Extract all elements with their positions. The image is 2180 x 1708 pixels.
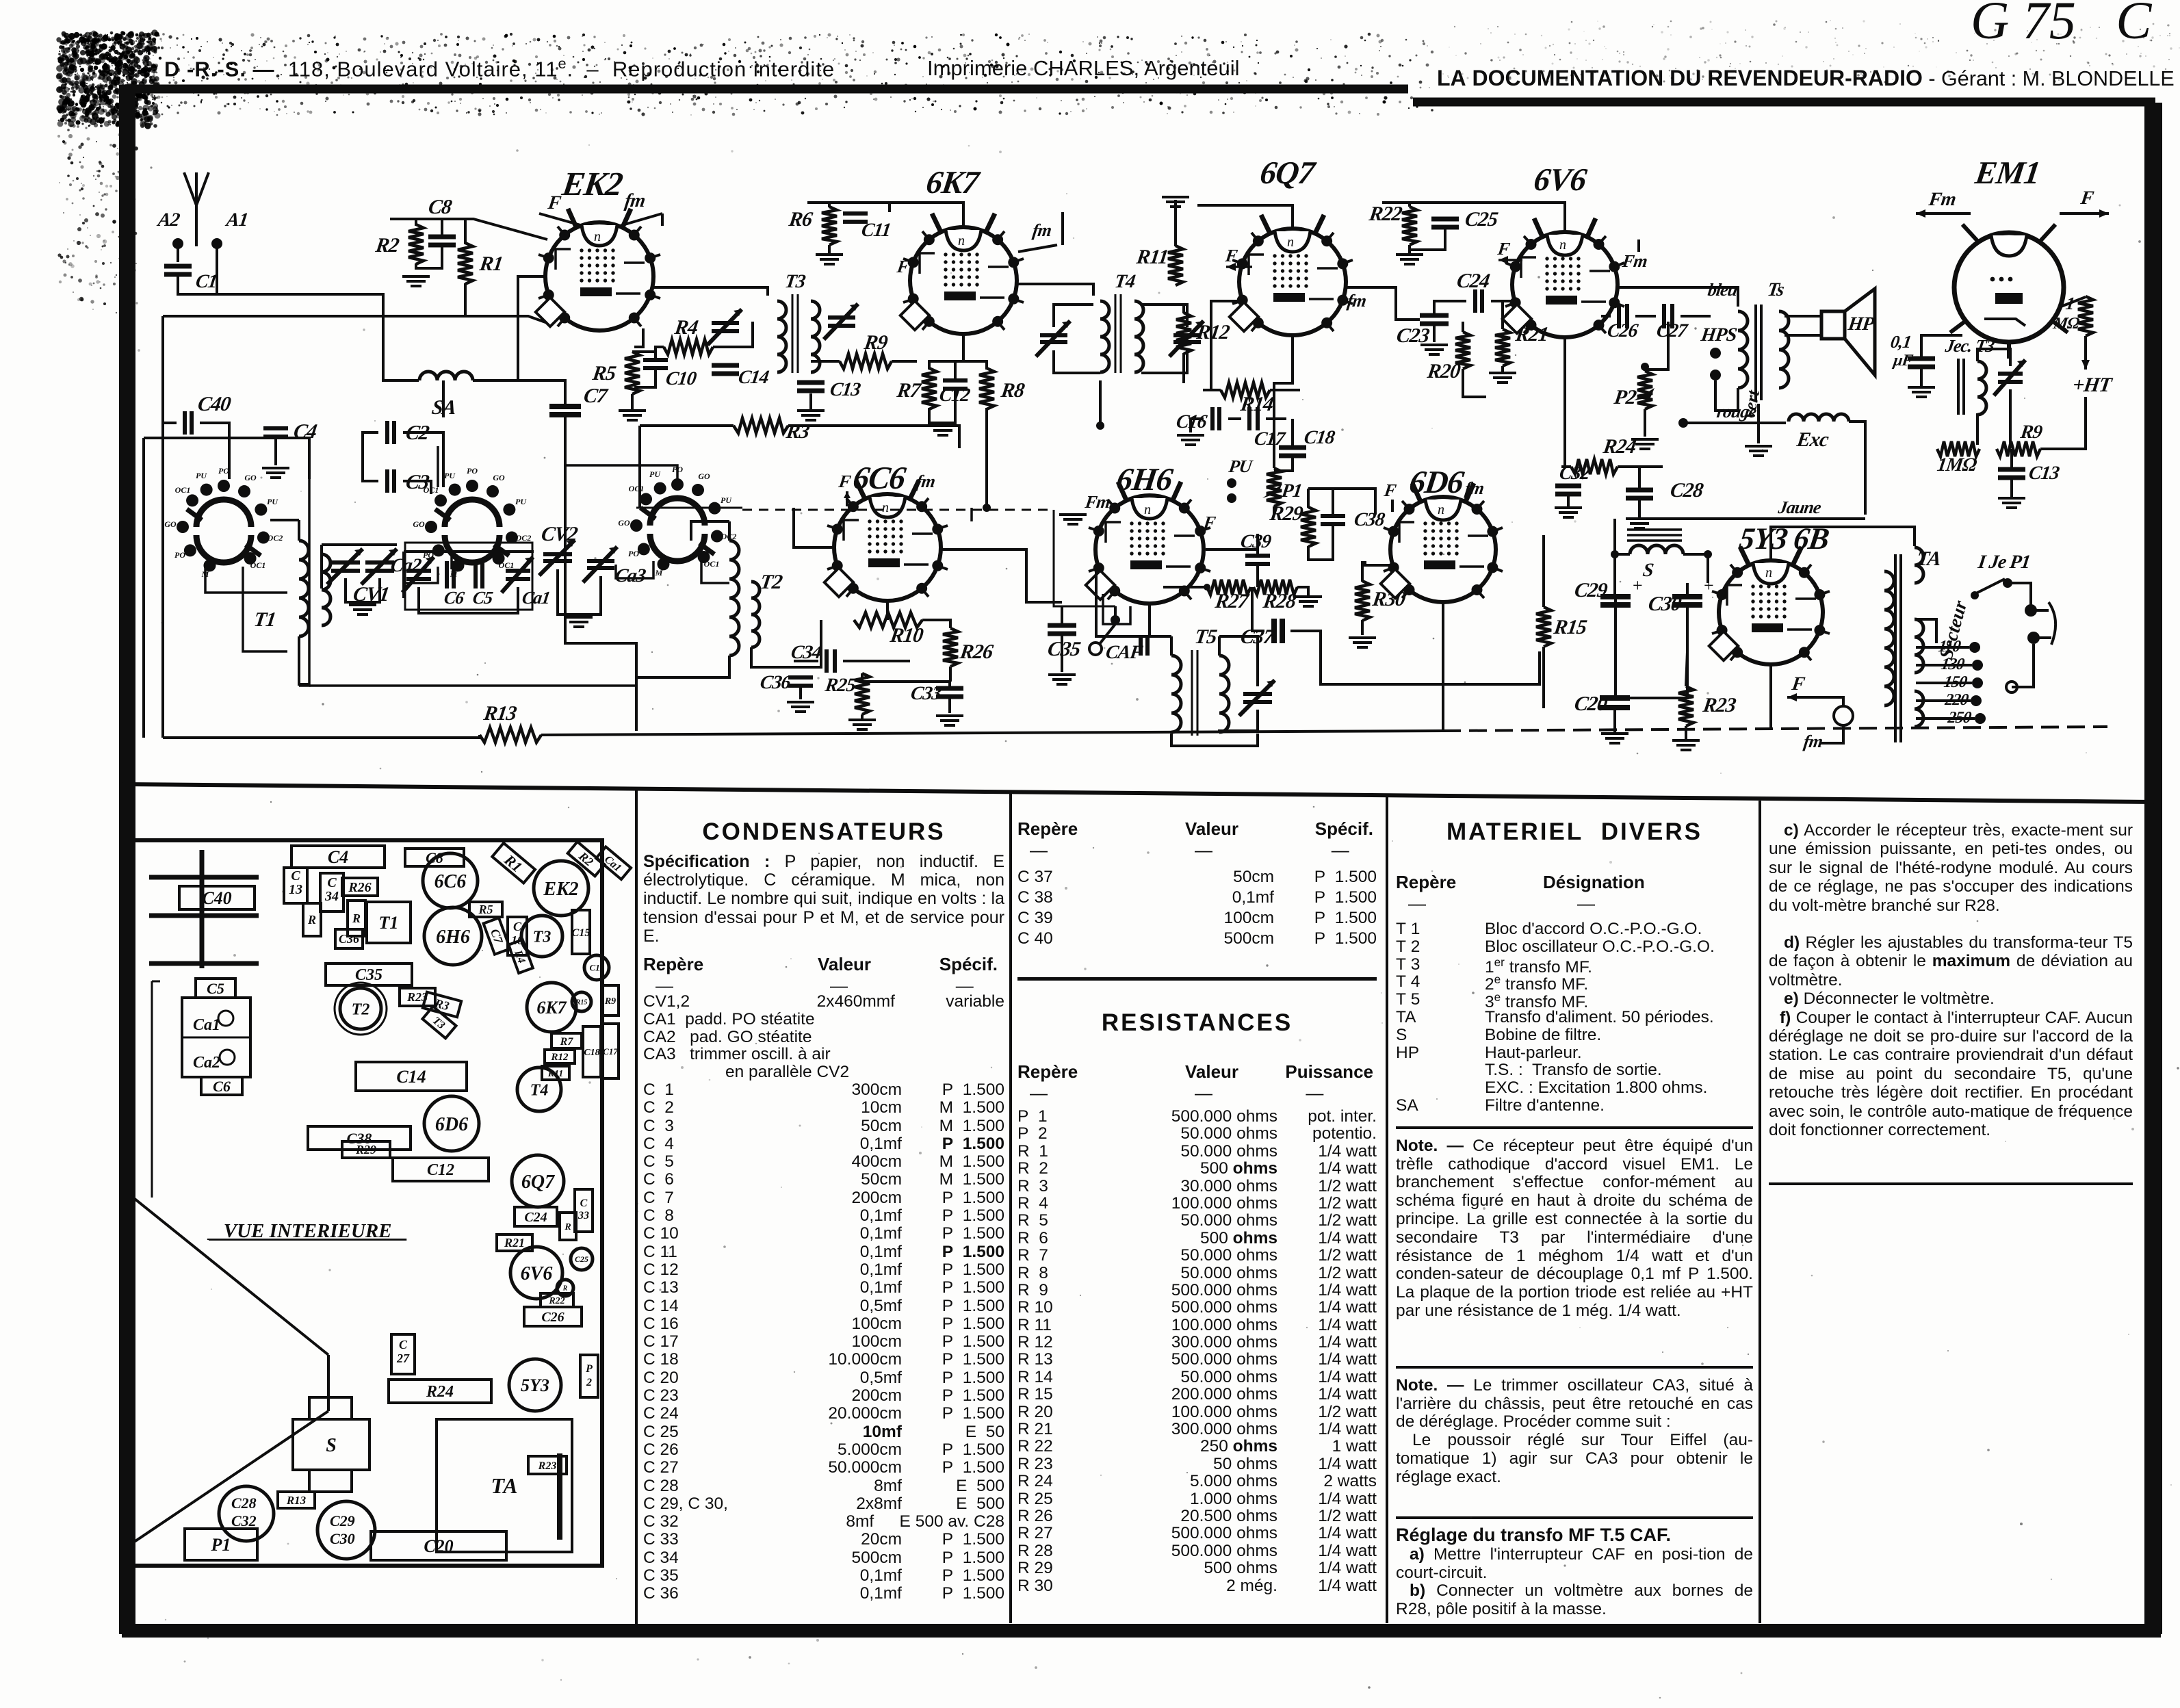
svg-text:GO: GO bbox=[413, 519, 425, 529]
svg-text:R12: R12 bbox=[1195, 320, 1232, 344]
vue: C20 box bbox=[371, 1531, 506, 1560]
resistor R24 bbox=[1571, 459, 1618, 474]
svg-text:C8: C8 bbox=[427, 195, 454, 218]
svg-text:+HT: +HT bbox=[2071, 373, 2114, 396]
wire 6K7 plate to T4 bbox=[1017, 284, 1093, 296]
vue: R2 box bbox=[568, 842, 605, 876]
resistor R25 bbox=[855, 673, 870, 714]
ground under R21 bbox=[1489, 373, 1516, 383]
vue: R-c24 box bbox=[560, 1213, 576, 1240]
vue: R4 box bbox=[508, 940, 533, 973]
wire R3 right bbox=[788, 426, 959, 448]
wire T5 bottom loop bbox=[1171, 734, 1258, 746]
svg-text:R: R bbox=[564, 1222, 571, 1232]
tube 6D6 bbox=[1390, 497, 1496, 602]
wire T4 bottom to AVC bbox=[1099, 380, 1102, 426]
right instructions column bbox=[1769, 821, 2133, 1185]
wire C18 bbox=[1291, 419, 1294, 446]
svg-text:C5: C5 bbox=[471, 588, 494, 608]
capacitor C29 bbox=[1600, 597, 1631, 605]
resistor 1MOhm h bbox=[1937, 441, 1980, 456]
wire grid bus bbox=[163, 316, 547, 323]
svg-text:T1: T1 bbox=[379, 913, 399, 933]
vue: 6H6 circle bbox=[424, 907, 482, 965]
capacitor C13 bbox=[797, 383, 825, 391]
wire T2 top bbox=[728, 521, 731, 541]
wire mid bus bbox=[636, 507, 742, 509]
node A2 bbox=[172, 238, 183, 249]
wire P1 bottom bbox=[1273, 506, 1275, 515]
vue: TA box bbox=[437, 1419, 572, 1552]
trimmer cap T5 right bbox=[1239, 680, 1275, 716]
wire P2 top bbox=[1644, 370, 1646, 371]
wire R3 drop bbox=[638, 426, 641, 508]
capacitor C38 bbox=[1321, 516, 1345, 524]
capacitor C40 bbox=[185, 411, 192, 435]
trimmer C5 bbox=[476, 561, 482, 588]
vue: R3 box bbox=[423, 992, 461, 1018]
wire C1 bottom bbox=[178, 276, 217, 294]
capacitor C31 bbox=[1141, 635, 1147, 656]
svg-text:OC1: OC1 bbox=[704, 559, 720, 569]
wire T2 to R10 bbox=[751, 620, 821, 667]
page frame: bottom border bbox=[122, 1624, 2161, 1638]
wire C16/C17 bbox=[1191, 419, 1204, 432]
svg-text:C27: C27 bbox=[396, 1338, 410, 1365]
ground under C28 bbox=[1626, 519, 1653, 528]
tube 6H6 bbox=[1095, 495, 1204, 604]
svg-text:S: S bbox=[1642, 560, 1655, 581]
wire 6C6 cathode bbox=[886, 601, 889, 620]
svg-text:T1: T1 bbox=[252, 608, 277, 631]
resistor 1 MOhm (EM1) bbox=[2078, 296, 2093, 336]
wire R14 bus bbox=[1203, 389, 1221, 391]
wire JecT3 top bbox=[1977, 349, 2010, 366]
svg-text:R13: R13 bbox=[482, 701, 519, 725]
wire 6Q7 bottom to P1 bbox=[1274, 335, 1293, 468]
wire C7 down bbox=[564, 417, 567, 619]
svg-text:R6: R6 bbox=[787, 207, 815, 231]
vue: C-17 tall box bbox=[602, 1024, 619, 1078]
capacitor C27 bbox=[1664, 304, 1672, 328]
wire A2-C1 bbox=[177, 248, 179, 262]
vue: 5Y3 circle bbox=[509, 1359, 561, 1411]
transformer T5 core bbox=[1192, 650, 1197, 736]
capacitor C10 bbox=[643, 360, 668, 368]
vue: C36 box bbox=[335, 929, 363, 948]
ground right of R28 bbox=[1295, 597, 1322, 606]
ground under R5 bbox=[619, 411, 646, 420]
coil Exc bbox=[1789, 414, 1849, 422]
ground CV2 bbox=[565, 617, 593, 627]
svg-text:C35: C35 bbox=[355, 966, 382, 984]
vue: R-small box bbox=[348, 901, 365, 936]
svg-text:PU: PU bbox=[267, 497, 278, 506]
resistor R22 bbox=[1402, 207, 1417, 245]
capacitor C18 bbox=[1279, 448, 1306, 456]
svg-text:EK2: EK2 bbox=[543, 879, 578, 900]
svg-text:R1: R1 bbox=[501, 851, 526, 875]
trimmer Ca3 bbox=[583, 547, 617, 582]
wire 6Q7 plate bbox=[1346, 287, 1396, 316]
wire TS bottom left bbox=[1715, 380, 1738, 411]
capacitor C33 bbox=[936, 688, 963, 697]
svg-text:6V6: 6V6 bbox=[521, 1263, 553, 1284]
svg-text:Fm: Fm bbox=[1620, 251, 1648, 271]
wire R9 right bbox=[2040, 397, 2086, 449]
svg-text:Ts: Ts bbox=[1766, 279, 1786, 300]
potentiometer P2 bbox=[1637, 371, 1652, 409]
svg-text:TA: TA bbox=[491, 1473, 517, 1498]
svg-text:A2: A2 bbox=[155, 209, 181, 231]
resistor R3 bbox=[734, 418, 788, 433]
resistor R13 bbox=[480, 727, 541, 742]
ground under C20 bbox=[1601, 734, 1628, 743]
handwritten reference G75 C top right bbox=[1971, 0, 2151, 51]
wire C33 bbox=[948, 682, 951, 687]
ground under C13 (EM1) bbox=[1998, 498, 2025, 508]
wire SA down to S2 bbox=[442, 380, 445, 417]
wire 6V6 top-right screen bbox=[1563, 203, 1566, 231]
vue: R12 box bbox=[545, 1050, 575, 1063]
vue: C10 box bbox=[508, 917, 527, 955]
wire R5 bottom bbox=[631, 394, 634, 409]
wire R7/C12 bottom bbox=[929, 390, 955, 423]
capacitor C13 (EM1) bbox=[1998, 469, 2025, 478]
svg-text:C13: C13 bbox=[289, 868, 302, 897]
wire 6Q7 left grid loop bbox=[1203, 305, 1211, 390]
wire 6Q7 grid bbox=[1211, 301, 1239, 305]
wire R2 top bbox=[415, 219, 417, 226]
wire 6H6 to C39 bbox=[1206, 534, 1258, 549]
vue: R7 box bbox=[552, 1033, 582, 1048]
wire 6C6 plate right bbox=[941, 549, 1062, 602]
svg-text:6Q7: 6Q7 bbox=[521, 1172, 555, 1193]
vue interieure outer box bbox=[130, 840, 602, 1566]
svg-text:PU: PU bbox=[196, 471, 207, 480]
transformer T4 core bbox=[1115, 294, 1121, 373]
wire T5 left bbox=[1170, 636, 1173, 656]
trimmer cap T3 right bbox=[824, 304, 858, 339]
resistor R20 bbox=[1455, 332, 1470, 369]
wire C23/C24 bbox=[1396, 316, 1420, 320]
svg-text:M: M bbox=[655, 568, 663, 578]
svg-text:T4: T4 bbox=[1113, 271, 1137, 292]
svg-text:R10: R10 bbox=[888, 623, 925, 647]
vue: C33 box bbox=[575, 1189, 593, 1232]
wire R24 bus bbox=[1561, 465, 1571, 468]
vue: R1 box bbox=[492, 843, 535, 883]
materiel divers column bbox=[1396, 818, 1753, 1619]
wire R4 left bbox=[656, 347, 664, 352]
speaker HP bbox=[1821, 311, 1845, 339]
vue: Ca1/Ca2 box bbox=[182, 998, 250, 1077]
svg-text:C28: C28 bbox=[1669, 478, 1705, 502]
wire 6K7 top node bbox=[807, 203, 963, 227]
wire bottom link T1-T2 bbox=[309, 684, 636, 687]
svg-text:6K7: 6K7 bbox=[924, 165, 983, 200]
svg-text:1MΩ: 1MΩ bbox=[1936, 454, 1978, 476]
vue: C7 box bbox=[484, 918, 510, 954]
vue: C28/C32 circle bbox=[219, 1486, 274, 1541]
svg-text:C6: C6 bbox=[443, 588, 466, 608]
wire SA to C7 bbox=[473, 380, 565, 404]
svg-text:GO: GO bbox=[618, 518, 630, 528]
wire socket3 top to EK2 bbox=[565, 465, 677, 486]
svg-text:P1: P1 bbox=[211, 1535, 231, 1555]
wire T1 top bbox=[298, 520, 300, 541]
svg-text:R: R bbox=[562, 1285, 568, 1293]
wire C39 bbox=[1256, 534, 1259, 554]
resistor R7 bbox=[922, 368, 937, 409]
svg-text:Ca1: Ca1 bbox=[602, 853, 623, 874]
svg-text:R24: R24 bbox=[1601, 435, 1638, 458]
capacitor C16 bbox=[1212, 407, 1219, 430]
wire R29/C38 top bbox=[1307, 489, 1310, 508]
wire T2 bottom bbox=[636, 656, 729, 731]
svg-text:R4: R4 bbox=[673, 315, 700, 339]
capacitor C11 bbox=[843, 213, 868, 222]
plug secteur bbox=[2025, 604, 2037, 617]
switch CAF bbox=[1089, 643, 1102, 655]
tube 6C6 bbox=[834, 494, 941, 601]
vue: C38 box bbox=[308, 1126, 411, 1150]
svg-text:C36: C36 bbox=[339, 932, 359, 946]
svg-text:T2: T2 bbox=[352, 1000, 370, 1018]
svg-text:C37: C37 bbox=[1239, 625, 1277, 648]
wire 6D6 plate down bbox=[1442, 602, 1444, 729]
svg-text:rouge: rouge bbox=[1715, 402, 1759, 422]
svg-text:PU: PU bbox=[1227, 456, 1254, 476]
vue: 6C6 circle bbox=[423, 853, 478, 908]
wire rouge line bbox=[1683, 422, 1786, 424]
svg-text:Fm: Fm bbox=[1927, 189, 1957, 210]
svg-text:C32: C32 bbox=[1558, 463, 1592, 484]
transformer TA sec top bbox=[1915, 547, 1923, 583]
ground under C32 bbox=[1555, 508, 1582, 517]
capacitor 0,1uF (EM1) bbox=[1908, 359, 1935, 367]
vue: C13 box bbox=[284, 868, 307, 903]
svg-text:R15: R15 bbox=[1552, 615, 1589, 638]
svg-text:OC1: OC1 bbox=[499, 560, 515, 570]
tube 6K7 bbox=[910, 227, 1017, 334]
svg-text:PO: PO bbox=[174, 550, 185, 560]
vue: R13 box bbox=[278, 1492, 315, 1508]
wire F lamp bbox=[1787, 696, 1820, 699]
svg-text:PU: PU bbox=[444, 471, 456, 480]
svg-text:C23: C23 bbox=[1395, 324, 1431, 347]
vue: C25 circle bbox=[571, 1248, 593, 1270]
wire C23 ground bbox=[1433, 326, 1436, 342]
wire C36-R25 bbox=[799, 686, 802, 699]
node A1 bbox=[211, 238, 222, 249]
svg-text:T2: T2 bbox=[759, 570, 784, 593]
wire trimmer bus top bbox=[404, 550, 534, 553]
svg-text:R9: R9 bbox=[2019, 422, 2044, 443]
svg-text:Ca3: Ca3 bbox=[614, 565, 647, 586]
svg-text:fm: fm bbox=[1802, 732, 1824, 751]
ground under R6 bbox=[816, 255, 843, 264]
wire C37 bbox=[1252, 587, 1264, 631]
vue: 6V6 circle bbox=[510, 1247, 562, 1299]
transformer T3 bbox=[777, 301, 786, 372]
svg-text:PO: PO bbox=[628, 549, 639, 558]
wire C40 frame bbox=[163, 422, 177, 424]
svg-text:C28: C28 bbox=[231, 1494, 257, 1512]
wire R4 right bbox=[713, 322, 753, 347]
svg-text:R22: R22 bbox=[548, 1296, 565, 1306]
svg-text:R2: R2 bbox=[374, 233, 401, 257]
vue: speaker wedge bbox=[131, 1196, 328, 1544]
frame around S1 bbox=[144, 438, 309, 479]
trimmer cap T4 left bbox=[1036, 321, 1070, 357]
wire R20/R21 top bbox=[1462, 322, 1464, 332]
resistor R4 bbox=[664, 339, 713, 354]
wire left vertical bbox=[161, 316, 164, 738]
resistor R9 (EM1) bbox=[1997, 441, 2040, 456]
svg-text:R15: R15 bbox=[575, 999, 588, 1007]
svg-text:n: n bbox=[1144, 502, 1151, 517]
wire A1 down-right bbox=[217, 248, 419, 380]
svg-text:6V6: 6V6 bbox=[1531, 162, 1589, 198]
svg-text:0,1: 0,1 bbox=[1889, 332, 1912, 352]
svg-text:OC1: OC1 bbox=[250, 560, 266, 570]
svg-text:C14: C14 bbox=[737, 367, 770, 388]
wire EK2 plate to T3 bbox=[653, 287, 768, 296]
resistor R9 bbox=[840, 354, 892, 369]
vue: C24 box bbox=[515, 1207, 557, 1226]
svg-text:CV2: CV2 bbox=[540, 522, 580, 545]
wire C8 leads bbox=[441, 219, 443, 235]
svg-text:C36: C36 bbox=[759, 672, 793, 693]
socket S1 (bloc accord) bbox=[196, 500, 251, 527]
svg-text:6K7: 6K7 bbox=[536, 998, 567, 1018]
wire bottom bus right bbox=[541, 731, 1443, 735]
wire JecT3 bottom bbox=[1976, 413, 1979, 445]
vue: EK2 circle bbox=[534, 861, 588, 916]
transformer T2 bbox=[729, 541, 739, 656]
wire 6C6 screen right bbox=[970, 508, 973, 521]
svg-text:F: F bbox=[1382, 480, 1397, 500]
wire R15 bbox=[1542, 535, 1545, 607]
wire R5/C10 node bbox=[632, 352, 656, 359]
svg-text:MΩ: MΩ bbox=[2051, 315, 2081, 333]
svg-text:P2: P2 bbox=[1612, 385, 1638, 409]
capacitor C17 bbox=[1249, 407, 1258, 430]
svg-text:Exc: Exc bbox=[1795, 428, 1830, 451]
wire C35 bbox=[1061, 606, 1063, 624]
ground under 0,1uF bbox=[1908, 387, 1935, 397]
svg-text:EK2: EK2 bbox=[559, 165, 625, 203]
vue: C8 box bbox=[405, 849, 464, 866]
svg-text:OC2: OC2 bbox=[516, 533, 532, 543]
ground under R2 bbox=[402, 276, 430, 286]
divider line between schematic and tables bbox=[122, 784, 2154, 802]
wire R26 bottom bbox=[949, 667, 952, 682]
svg-text:6C6: 6C6 bbox=[851, 461, 908, 496]
resistor R1 bbox=[458, 243, 473, 284]
transformer T1 bbox=[299, 541, 309, 636]
svg-text:5Y3: 5Y3 bbox=[521, 1375, 549, 1395]
header title right bbox=[1437, 66, 2175, 91]
svg-text:R22: R22 bbox=[1367, 202, 1404, 225]
resistor R5 bbox=[625, 352, 640, 394]
resistor R10 bbox=[854, 612, 922, 627]
capacitor C24 bbox=[1475, 289, 1482, 313]
vue: T1 box bbox=[367, 902, 411, 943]
wire R1 leads bbox=[464, 219, 467, 244]
capacitor C37 bbox=[1274, 619, 1282, 643]
header imprint left bbox=[164, 55, 835, 81]
vue: Ca box bbox=[596, 846, 631, 879]
tube EK2 bbox=[545, 222, 653, 331]
wire grid 6C6 bbox=[794, 508, 834, 547]
vue: T4 circle bbox=[517, 1067, 561, 1111]
svg-text:I Je P1: I Je P1 bbox=[1976, 552, 2032, 573]
svg-text:fm: fm bbox=[1346, 291, 1368, 311]
wire R8 bottom to AVC bbox=[985, 438, 988, 508]
trimmer Ca2 bbox=[402, 557, 434, 593]
wire R7/C12/R8 top bbox=[929, 361, 987, 370]
resistor R27 bbox=[1207, 580, 1251, 595]
capacitor C36 bbox=[788, 677, 813, 686]
svg-text:C18: C18 bbox=[1303, 427, 1336, 448]
capacitor C34 bbox=[827, 649, 835, 673]
wire 1M to +HT bbox=[2084, 336, 2087, 370]
trimmer cap JecT3 bbox=[1994, 360, 2025, 396]
table column rule 2 bbox=[1009, 794, 1012, 1623]
wire TS core ground bbox=[1757, 404, 1760, 443]
ground under C13 bbox=[797, 411, 825, 420]
svg-text:n: n bbox=[594, 229, 601, 244]
capacitor C12 bbox=[943, 380, 968, 389]
wire T3 to R9 bbox=[811, 360, 840, 363]
wire P2 bottom bbox=[1644, 409, 1646, 437]
wire R12 bbox=[1182, 305, 1185, 313]
svg-text:n: n bbox=[1765, 565, 1772, 580]
wire C18 to P1 bbox=[1274, 469, 1293, 472]
svg-text:6C6: 6C6 bbox=[434, 871, 467, 892]
wire EK2 grid left bbox=[518, 276, 546, 380]
vue: C27 box bbox=[391, 1334, 415, 1374]
svg-text:n: n bbox=[1559, 237, 1566, 253]
svg-text:C20: C20 bbox=[1573, 692, 1609, 715]
wire TA top to 5Y3 bbox=[1771, 527, 1915, 561]
svg-text:R26: R26 bbox=[348, 880, 371, 895]
svg-text:C25: C25 bbox=[1464, 207, 1500, 231]
wire bottom bus right 2 bbox=[1443, 727, 2107, 731]
svg-text:EM1: EM1 bbox=[1973, 155, 2042, 191]
vue: C6 box bbox=[201, 1077, 242, 1095]
wire C26/C27 bus bbox=[1601, 315, 1611, 318]
transformer T4 bbox=[1100, 301, 1109, 372]
svg-text:C5: C5 bbox=[207, 980, 224, 997]
svg-text:Fm: Fm bbox=[1083, 492, 1111, 512]
svg-text:C40: C40 bbox=[202, 888, 231, 908]
ground above R11 bbox=[1162, 197, 1189, 207]
svg-text:PU: PU bbox=[721, 495, 732, 505]
capacitor C2 bbox=[387, 421, 394, 444]
vue: C-18 tall box bbox=[583, 1026, 601, 1077]
svg-text:OC2: OC2 bbox=[268, 533, 283, 543]
svg-text:fm: fm bbox=[915, 471, 937, 491]
svg-text:C40: C40 bbox=[196, 392, 233, 415]
vue: S box bbox=[293, 1419, 369, 1470]
svg-text:C29: C29 bbox=[1573, 578, 1609, 601]
vue: R11 box bbox=[542, 1066, 569, 1080]
svg-text:C12: C12 bbox=[427, 1161, 454, 1179]
svg-text:C26: C26 bbox=[541, 1310, 564, 1325]
